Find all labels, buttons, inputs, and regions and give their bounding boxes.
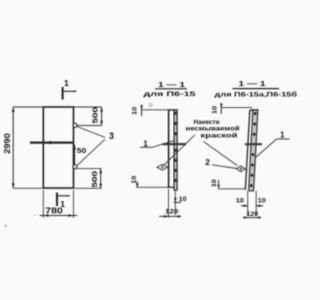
dim 500 top-right ext lines — [74, 106, 102, 108]
loop column bottom cap (right) — [248, 190, 254, 192]
svg-text:10: 10 — [211, 179, 218, 187]
svg-text:500: 500 — [90, 107, 99, 124]
bottom ext line (right) — [218, 188, 246, 190]
bottom ext vline B (right) — [255, 191, 257, 216]
svg-text:10: 10 — [179, 196, 187, 203]
section mark 1 top — [62, 87, 64, 100]
loop column left line (right) — [249, 109, 253, 190]
element top cap — [168, 109, 178, 111]
dim 780 ext lines — [42, 190, 44, 218]
loop dots (right) — [250, 112, 257, 187]
marking diamond (middle) — [157, 165, 167, 171]
svg-text:3: 3 — [109, 131, 114, 141]
loop dots — [174, 112, 177, 182]
svg-text:10: 10 — [258, 198, 266, 205]
svg-text:120: 120 — [247, 211, 259, 218]
svg-text:10: 10 — [211, 106, 218, 114]
svg-text:несмываемой: несмываемой — [186, 124, 240, 132]
svg-text:2990: 2990 — [2, 133, 12, 154]
svg-text:для П6-15: для П6-15 — [144, 91, 196, 98]
note leader to middle diamond — [164, 135, 196, 166]
label 2 leader — [212, 165, 237, 169]
bottom ext vline left (middle) — [168, 189, 170, 218]
svg-text:для П6-15а,П6-15б: для П6-15а,П6-15б — [215, 90, 298, 98]
loop column bottom cap — [174, 189, 178, 191]
title underline right — [233, 88, 280, 90]
svg-text:120: 120 — [165, 209, 178, 216]
svg-text:1 — 1: 1 — 1 — [239, 79, 267, 88]
loop column right line — [176, 109, 178, 190]
svg-text:1: 1 — [64, 78, 69, 88]
joint line through right element — [245, 143, 262, 145]
dim 2990 line — [12, 107, 14, 188]
panel outline — [43, 107, 73, 188]
svg-text:1 — 1: 1 — 1 — [158, 80, 186, 89]
bottom ext line (middle) — [136, 186, 168, 188]
bottom ext vline right (middle) — [174, 191, 176, 215]
diamond tail to plate (right) — [245, 169, 248, 171]
dim 2990 extension top — [13, 106, 43, 108]
dim 780 line — [40, 215, 78, 217]
top ext line (right) — [221, 107, 252, 109]
joint line across panel — [30, 142, 74, 144]
svg-text:10: 10 — [236, 198, 244, 205]
svg-text:краской: краской — [201, 131, 238, 139]
lifting loop circle top — [73, 123, 77, 127]
plate line (right, tilted) — [245, 111, 250, 191]
dim 10 top (right) — [220, 103, 222, 114]
label 1 (right) leader — [277, 138, 290, 140]
dim 120 (middle) — [159, 215, 181, 217]
loop column right line (right) — [254, 109, 258, 190]
dim 500 top-right line — [101, 107, 103, 126]
joint arrow — [49, 141, 56, 145]
dim 500 bottom-right line — [100, 169, 102, 189]
marking diamond (right) — [237, 166, 245, 172]
bottom ext vline A (right) — [247, 191, 249, 216]
dim 500 bottom-right ext line — [77, 168, 102, 170]
lifting loop circle bottom — [73, 165, 77, 169]
loop column shading — [174, 110, 177, 191]
loop column left line — [173, 109, 175, 190]
loop column shading (right) — [249, 110, 258, 191]
svg-text:780: 780 — [45, 205, 63, 215]
dim 50 line — [74, 145, 76, 165]
scan noise left edge — [4, 225, 6, 227]
dim 10 top (middle) — [141, 105, 143, 117]
element top cap (right) — [249, 109, 258, 111]
plate bottom cap — [168, 186, 174, 188]
plate left edge — [168, 110, 170, 187]
joint line through middle element — [163, 143, 187, 145]
svg-text:10: 10 — [132, 107, 139, 115]
dim 2990 extension bottom (shared long line) — [13, 187, 101, 189]
label 1 (middle) leader — [140, 146, 153, 148]
leader to label 3 (from bottom loop) — [77, 139, 105, 165]
note leader to right diamond — [204, 142, 238, 166]
svg-text:2: 2 — [205, 158, 210, 167]
title underline — [155, 88, 187, 90]
svg-text:1: 1 — [143, 139, 148, 148]
leader to label 3 (from top loop) — [77, 127, 105, 138]
down arrow 10 (middle bottom) — [174, 198, 177, 202]
svg-text:1: 1 — [280, 131, 285, 140]
svg-text:500: 500 — [90, 171, 99, 188]
svg-text:50: 50 — [77, 148, 87, 155]
top ext line (middle) — [142, 109, 174, 111]
section mark 1 bottom — [56, 193, 58, 207]
